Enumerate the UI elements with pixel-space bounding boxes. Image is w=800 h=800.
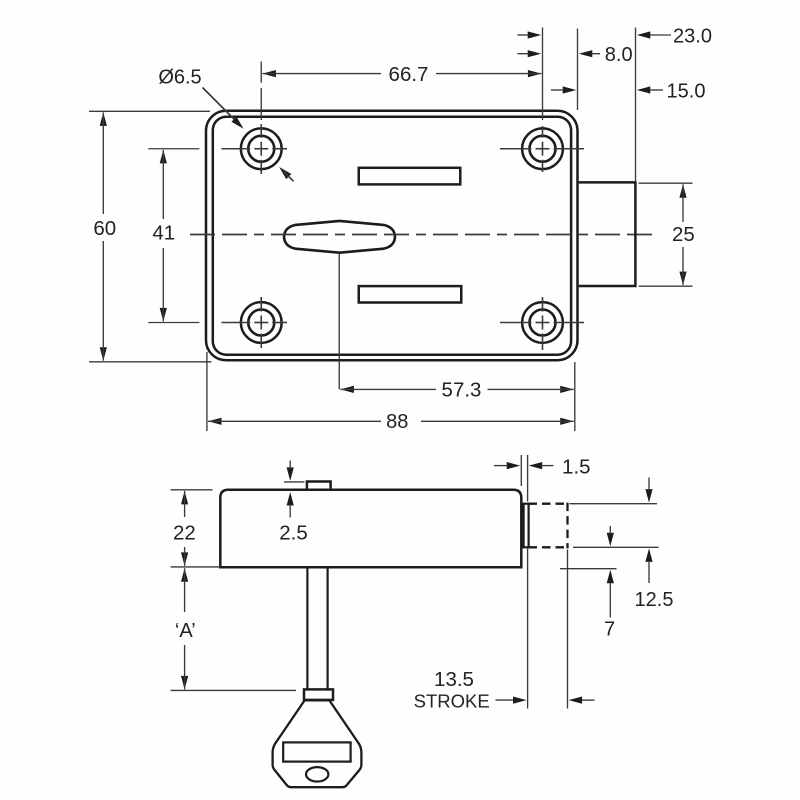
svg-text:57.3: 57.3 — [442, 379, 482, 402]
svg-text:13.5: 13.5 — [434, 668, 474, 691]
svg-text:8.0: 8.0 — [605, 44, 633, 66]
svg-text:STROKE: STROKE — [414, 690, 490, 711]
svg-text:60: 60 — [93, 217, 116, 240]
svg-text:22: 22 — [173, 521, 196, 544]
svg-text:2.5: 2.5 — [279, 521, 308, 544]
svg-text:1.5: 1.5 — [562, 455, 591, 478]
svg-text:‘A’: ‘A’ — [175, 620, 196, 642]
svg-text:23.0: 23.0 — [673, 25, 712, 47]
svg-text:25: 25 — [672, 223, 695, 246]
svg-text:88: 88 — [386, 411, 408, 433]
svg-text:7: 7 — [604, 619, 615, 641]
svg-text:15.0: 15.0 — [667, 80, 706, 102]
svg-text:41: 41 — [152, 221, 175, 244]
svg-text:Ø6.5: Ø6.5 — [158, 66, 201, 88]
svg-text:12.5: 12.5 — [635, 589, 674, 611]
svg-text:66.7: 66.7 — [389, 63, 429, 86]
